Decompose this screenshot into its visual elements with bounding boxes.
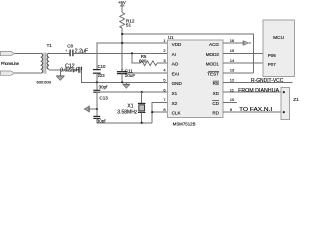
svg-text:ACG: ACG [209,42,219,47]
svg-text:GND: GND [172,81,183,86]
pin numbers right [230,38,235,112]
node dot ground arrow [96,108,98,110]
svg-text:TO FAX.N.I: TO FAX.N.I [239,107,272,113]
wire VDD pin1 [97,43,168,69]
pin labels right [206,42,220,116]
svg-text:VDD: VDD [172,42,182,47]
svg-text:16: 16 [230,38,235,43]
wire connector ring to transformer primary bottom [15,72,41,74]
connector J1a (phone line tip) [0,51,14,55]
svg-text:MSM7512B: MSM7512B [173,122,196,127]
node dot C10 gnd [96,81,98,83]
svg-text:X1: X1 [127,103,133,109]
wire CLK pin8 [152,111,167,113]
svg-text:51: 51 [126,23,132,28]
svg-text:P07: P07 [268,62,277,67]
wire C11 bottom to GND bus [121,74,123,83]
wire to ground arrow [89,108,97,110]
svg-text:RD: RD [212,111,219,116]
ground arrow symbol (left pointing) [84,106,89,113]
svg-text:XD: XD [213,91,220,96]
svg-text:FROM DIANHUA: FROM DIANHUA [238,88,280,94]
svg-text:MOD2: MOD2 [206,52,220,57]
wire mid vertical between caps [96,92,98,116]
svg-text:CLK: CLK [172,111,182,116]
svg-text:EAI: EAI [172,71,179,76]
wire R5 to U1 pin3 [157,62,168,64]
pin labels left [172,42,183,116]
svg-text:C10: C10 [98,64,106,69]
svg-text:+: + [65,49,67,53]
svg-text:PhoneLine: PhoneLine [1,61,20,66]
svg-text:X2: X2 [172,101,178,106]
node dot +5V feed [121,33,123,35]
resistor R5 600 [141,61,158,66]
svg-text:X1: X1 [172,91,178,96]
wire X1 pin6 [97,91,168,93]
svg-text:CD: CD [212,101,219,106]
node dot VDD [121,42,123,44]
svg-text:MCU: MCU [273,35,284,41]
wire C13b to bottom bus [97,118,152,122]
svg-text:AI: AI [172,52,176,57]
svg-text:C13: C13 [99,96,108,101]
overline TEST [208,70,219,72]
node dot Z1 top [283,91,285,93]
wire MOD1 pin14 to MCU [223,62,263,64]
svg-text:MOD1: MOD1 [206,62,220,67]
ground symbol at transformer [56,76,64,81]
wire C10 bottom to GND bus [96,73,98,82]
node dot crystal top [141,91,143,93]
wire connector tip to transformer primary top [15,52,41,54]
svg-text:600:600: 600:600 [37,80,52,85]
ground symbol on GND bus [123,82,130,88]
connector J1b (phone line ring) [0,71,14,75]
+5V power symbol [118,0,126,13]
wire R12 down to C11 (vcc rail vertical) [121,28,123,72]
resistor R12 51 [120,13,125,29]
node dot crystal bottom [141,122,143,124]
node dot AI / R5 tee [131,52,133,54]
node dot CLK/X2 [151,111,153,113]
capacitor C8 2.2uF [65,49,73,56]
svg-text:30pf: 30pf [99,85,109,90]
pin numbers left [163,38,166,112]
svg-text:600: 600 [139,59,147,64]
wire AI line C8 to U1 pin2 [73,52,168,54]
wire transformer secondary bottom to C12 [49,69,79,71]
svg-text:14: 14 [230,58,235,63]
overline RS [213,80,219,82]
wire RS pin12 [223,81,292,83]
wire ACG pin16 [223,42,243,44]
ground stub at transformer [59,70,61,76]
wire TEST pin13 [223,72,254,74]
svg-text:T1: T1 [47,43,53,48]
overline CD [212,100,219,102]
svg-text:15: 15 [230,48,235,53]
node dot Z1 bottom [283,111,285,113]
svg-text:10: 10 [230,97,235,102]
capacitor C13b 30pf [93,116,100,118]
svg-text:Z1: Z1 [293,97,299,103]
svg-text:10uF: 10uF [125,73,136,78]
svg-text:U1: U1 [168,35,174,40]
svg-text:TEST: TEST [207,71,219,76]
wire crystal-gnd vertical (below bus) [96,82,98,90]
capacitor C11 10uF [117,68,127,74]
wire AI tee down to AO row [132,53,141,63]
connector Z1 [281,88,289,120]
wire EAI pin4 [127,72,167,74]
capacitor C13a 30pf [93,90,100,92]
transformer T1 [41,53,49,74]
wire +5V feed horizontal to right [122,34,253,73]
svg-text:3.58MHz: 3.58MHz [117,110,138,116]
wire MOD2 pin15 to MCU [223,52,263,54]
wire X2 pin7 [152,102,167,122]
svg-text:R-GND|T-VCC: R-GND|T-VCC [251,78,284,84]
crystal X1 3.58MHz [138,92,146,123]
wire transformer secondary top to C8 [49,52,70,54]
wire RD pin9 to Z1 [223,111,284,113]
svg-text:12: 12 [230,78,235,83]
wire C12 right plate down to GND bus [81,70,167,82]
svg-text:P06: P06 [268,53,277,58]
wire XD pin11 to Z1 [223,91,284,93]
svg-text:RS: RS [213,81,219,86]
svg-text:AO: AO [172,62,179,67]
capacitor C10 223 [93,70,101,74]
svg-text:13: 13 [230,68,235,73]
svg-text:0.022μF: 0.022μF [60,67,78,73]
svg-text:C8: C8 [67,43,73,48]
capacitor C12 0.022uF [79,67,81,73]
svg-text:223: 223 [98,73,106,78]
MCU block [263,20,294,76]
output arrow ACG [243,41,250,46]
IC U1 MSM7512B [168,40,224,118]
wire CD pin10 [223,101,237,103]
node dot C11 gnd [121,81,123,83]
